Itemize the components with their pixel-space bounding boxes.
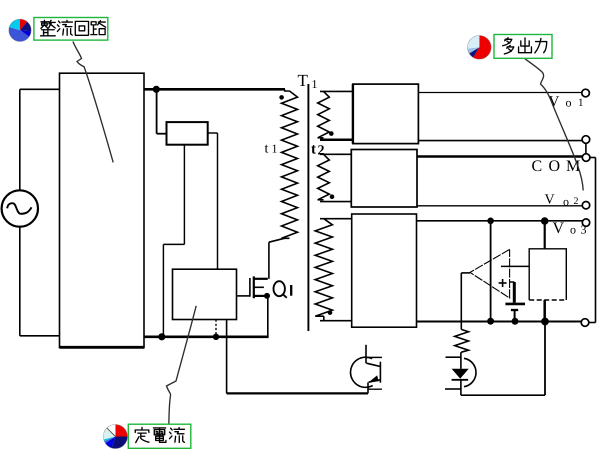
svg-text:2: 2 <box>317 144 324 159</box>
svg-text:1: 1 <box>271 142 277 156</box>
svg-text:t: t <box>264 142 268 157</box>
svg-text:o: o <box>565 96 571 110</box>
svg-text:V: V <box>544 193 554 208</box>
svg-text:C: C <box>531 158 542 175</box>
svg-text:3: 3 <box>580 223 586 237</box>
svg-text:o: o <box>563 195 569 209</box>
svg-text:O: O <box>548 158 560 175</box>
svg-text:1: 1 <box>311 77 317 91</box>
svg-text:2: 2 <box>573 196 578 207</box>
svg-text:o: o <box>570 223 576 237</box>
svg-text:V: V <box>552 220 564 237</box>
svg-text:T: T <box>297 71 308 90</box>
svg-text:1: 1 <box>578 97 584 109</box>
svg-text:t: t <box>311 142 316 158</box>
